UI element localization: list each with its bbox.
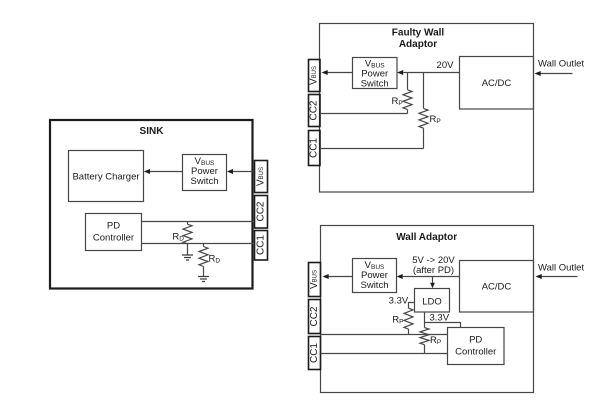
svg-text:Controller: Controller [455,347,496,358]
svg-text:Wall Outlet: Wall Outlet [538,59,584,70]
svg-text:VBUS: VBUS [309,66,320,85]
VBUS power switch (sink) [183,155,227,191]
svg-text:Faulty Wall: Faulty Wall [392,28,445,39]
wire VBUS: power switch to battery charger [150,171,183,173]
svg-text:RD: RD [172,232,184,243]
svg-text:RP: RP [392,315,403,326]
svg-text:PD: PD [107,221,120,232]
svg-text:Switch: Switch [191,176,219,187]
svg-text:Battery Charger: Battery Charger [72,172,139,183]
svg-text:VBUS: VBUS [256,167,267,186]
AC/DC converter (faulty) [460,57,534,110]
connector cell VBUS (faulty) [309,60,321,92]
svg-text:CC1: CC1 [309,138,320,158]
svg-text:RD: RD [209,254,221,265]
connector cell CC1 (wall) [309,337,321,370]
wire CC1 (sink) [142,243,254,245]
svg-text:20V: 20V [437,60,455,71]
wire VBUS: power switch to connector (wall) [329,276,353,278]
wire CC2 (sink) [142,221,254,223]
wire 3.3V to PD controller [425,323,461,328]
svg-text:3.3V: 3.3V [430,313,450,324]
VBUS power switch (wall) [353,259,397,293]
resistor RP1 (faulty, to CC2) [407,73,409,90]
svg-text:CC2: CC2 [309,306,320,326]
ground (RD2) [198,277,209,282]
wire VBUS: AC/DC to power switch (wall) [403,276,460,278]
LDO regulator U_LDO [415,289,450,313]
connector cell CC1 (faulty) [309,131,321,166]
resistor RD1 (CC2 pulldown) [183,224,192,244]
svg-text:AC/DC: AC/DC [482,282,512,293]
resistor RP2 (wall, to CC1) [420,328,429,345]
Wall Adaptor enclosure box [321,226,534,393]
svg-text:CC2: CC2 [256,201,267,221]
wire CC2 (faulty) [320,113,408,115]
wire into LDO [432,277,434,284]
connector cell VBUS (wall) [309,263,321,297]
connector cell CC2 (wall) [309,300,321,334]
wire 20V: AC/DC to power switch (faulty) [403,72,459,74]
svg-text:PD: PD [469,335,482,346]
wire CC1 (wall) [321,353,448,355]
connector cell CC1 (sink) [255,231,268,261]
svg-text:3.3V: 3.3V [389,296,409,307]
svg-text:SINK: SINK [140,126,165,137]
wire CC1 (faulty) [320,148,424,150]
ground (RD1) [182,255,193,260]
svg-text:Controller: Controller [93,233,134,244]
svg-text:AC/DC: AC/DC [482,78,512,89]
svg-text:Switch: Switch [361,79,389,90]
AC/DC converter (wall) [460,261,534,313]
svg-text:Wall Outlet: Wall Outlet [538,262,584,273]
wire wall outlet arrow (wall) [541,276,578,278]
resistor RP1 (wall, 3.3V to CC2) [404,308,413,329]
svg-text:VBUS: VBUS [309,270,320,289]
resistor RP2 (faulty, to CC1) [423,73,425,109]
resistor RD2 (CC1 pulldown) [199,247,208,267]
svg-text:(after PD): (after PD) [413,265,454,276]
VBUS power switch (faulty) [353,58,398,89]
wire wall outlet arrow (faulty) [540,73,573,75]
wire LDO left to RP1 (wall) [409,303,415,309]
SINK enclosure box [50,120,253,289]
PD controller (sink) [86,214,142,251]
svg-text:Wall Adaptor: Wall Adaptor [396,232,457,243]
battery charger U_BC [69,151,144,202]
svg-text:Switch: Switch [361,280,389,291]
wire VBUS: power switch to connector (faulty) [328,72,353,74]
connector cell CC2 (sink) [255,196,268,229]
connector cell CC2 (faulty) [309,95,321,127]
svg-text:CC2: CC2 [309,100,320,120]
wire LDO bottom 3.3V [424,312,426,328]
PD controller (wall) [448,328,505,365]
svg-text:CC1: CC1 [256,235,267,255]
svg-text:RP: RP [430,335,441,346]
Faulty Wall Adaptor enclosure box [320,24,534,193]
svg-text:Adaptor: Adaptor [399,39,437,50]
wire VBUS: connector to power switch [233,171,253,173]
svg-text:CC1: CC1 [309,343,320,363]
connector cell VBUS (sink) [255,161,268,193]
svg-text:LDO: LDO [422,297,442,308]
wire CC2 (wall) [321,334,448,336]
svg-text:RP: RP [430,114,441,125]
svg-text:RP: RP [391,96,402,107]
